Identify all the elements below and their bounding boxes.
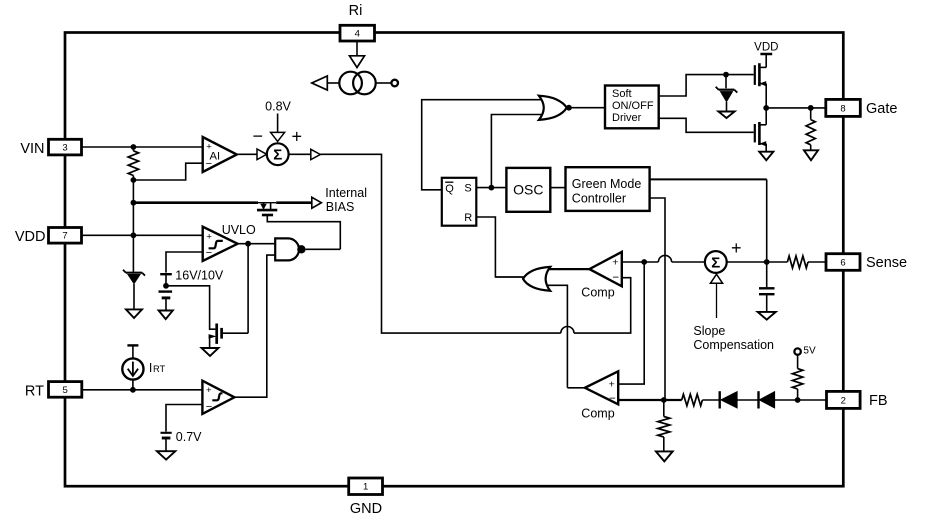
svg-text:2: 2 bbox=[841, 395, 846, 406]
block OSC bbox=[506, 168, 550, 212]
transistor Q1 pass PMOS on bias line bbox=[257, 203, 277, 215]
summing node S2 bbox=[705, 251, 727, 273]
svg-text:Q: Q bbox=[445, 183, 454, 195]
node Comp2 plus branch bbox=[641, 259, 647, 265]
ground below 0.7V bbox=[157, 451, 175, 459]
svg-text:6: 6 bbox=[840, 257, 845, 268]
comparator Comp1 bbox=[589, 252, 621, 286]
ground below zener D1 bbox=[126, 309, 142, 318]
0.8V reference label bbox=[265, 99, 291, 113]
ground below C-sense bbox=[758, 312, 776, 320]
zener D2 gate clamp bbox=[716, 75, 738, 112]
pin 6 Sense bbox=[826, 254, 907, 271]
svg-text:Gate: Gate bbox=[866, 101, 897, 117]
resistor R-5V bbox=[792, 355, 802, 400]
wire Qbar to OR1 top input bbox=[422, 100, 546, 190]
wire OSC to Green Mode Controller bbox=[550, 187, 565, 189]
pin 2 FB bbox=[827, 391, 888, 409]
svg-text:Sense: Sense bbox=[866, 255, 907, 271]
svg-text:Controller: Controller bbox=[572, 192, 626, 206]
svg-text:Green Mode: Green Mode bbox=[572, 177, 642, 191]
wire AI output bbox=[237, 153, 257, 155]
wire transformer left output bbox=[328, 82, 340, 84]
wire D3 to D4 bbox=[737, 399, 758, 401]
resistor R-gate bbox=[806, 108, 815, 150]
wire D4 to pin 2 bbox=[775, 399, 827, 401]
wire Comp2 minus input (FB line) bbox=[618, 399, 682, 401]
wire transformer right terminal bbox=[376, 82, 392, 84]
comparator UVLO bbox=[203, 227, 238, 261]
wire Comp2 output bbox=[567, 387, 585, 389]
svg-text:16V/10V: 16V/10V bbox=[175, 269, 224, 283]
svg-text:4: 4 bbox=[355, 29, 360, 40]
svg-text:Ri: Ri bbox=[349, 3, 363, 19]
wire GMC to FB node (with hop) bbox=[650, 198, 665, 400]
pin 5 RT bbox=[25, 382, 202, 400]
node 5V pull-up tap bbox=[795, 397, 801, 403]
capacitor C-sense bbox=[759, 262, 775, 312]
ground below R-fb2 bbox=[656, 451, 673, 461]
arrow left output bbox=[312, 76, 328, 90]
node UVLO output bbox=[245, 241, 251, 247]
IC boundary box bbox=[65, 33, 843, 487]
node RT junction bbox=[130, 387, 136, 393]
buffer arrow into summer bbox=[257, 149, 267, 160]
node Q4 gate bbox=[723, 72, 729, 78]
label VDD bbox=[754, 42, 778, 54]
ground below R-gate bbox=[804, 150, 818, 160]
wire UVLO output bbox=[238, 243, 276, 245]
svg-text:−: − bbox=[609, 393, 616, 405]
reference 16V/10V stack bbox=[159, 274, 173, 310]
svg-text:+: + bbox=[609, 378, 615, 390]
svg-text:Slope: Slope bbox=[693, 324, 725, 338]
current transformer T1 bbox=[339, 72, 375, 95]
wire Comp1 plus input to summer (hop over GMC line) bbox=[622, 255, 705, 262]
svg-text:S: S bbox=[464, 183, 471, 195]
svg-text:VIN: VIN bbox=[20, 141, 44, 157]
wire S node to OR1 bottom input bbox=[491, 115, 546, 188]
plus sign at summer bbox=[291, 127, 302, 147]
ground below 16V/10V bbox=[159, 311, 173, 320]
wire driver bottom output to Q5 gate bbox=[659, 118, 754, 132]
diode D3 bbox=[720, 391, 738, 408]
gate U2 NAND bbox=[275, 238, 305, 260]
svg-text:0.7V: 0.7V bbox=[176, 430, 202, 444]
svg-text:Σ: Σ bbox=[273, 147, 282, 164]
node S branch bbox=[489, 185, 495, 191]
wire Q4 source to gate node bbox=[765, 84, 767, 108]
svg-text:FB: FB bbox=[869, 393, 888, 409]
node OR1 output bbox=[566, 105, 572, 111]
svg-text:VDD: VDD bbox=[15, 229, 46, 245]
wire summer output bbox=[289, 153, 311, 155]
wire 0.8V down bbox=[277, 114, 279, 134]
node VIN junction bbox=[131, 144, 137, 150]
ground below zener D2 bbox=[718, 112, 734, 119]
svg-text:Comp: Comp bbox=[581, 285, 614, 299]
svg-text:RT: RT bbox=[25, 383, 44, 399]
zener D1 on VDD rail bbox=[123, 270, 145, 310]
block Green Mode Controller bbox=[566, 167, 650, 211]
terminal ring bbox=[391, 80, 398, 87]
label UVLO bbox=[222, 223, 256, 237]
wire S input from OSC bbox=[476, 187, 506, 189]
wire to AI inverting input bbox=[133, 163, 202, 180]
svg-text:+: + bbox=[612, 256, 618, 268]
svg-text:RT: RT bbox=[153, 364, 166, 374]
node gate output bbox=[763, 105, 769, 111]
wire R input from OR2 output bbox=[476, 217, 525, 277]
wire current-sense signal to Comp1 inverting input bbox=[320, 154, 630, 333]
summing node S1 bbox=[267, 143, 289, 165]
svg-text:I: I bbox=[149, 361, 152, 375]
label 0.7V bbox=[176, 430, 202, 444]
node VDD junction bbox=[131, 232, 137, 238]
svg-text:UVLO: UVLO bbox=[222, 223, 256, 237]
label Comp1 bbox=[581, 285, 614, 299]
svg-text:Driver: Driver bbox=[612, 112, 642, 124]
svg-text:0.8V: 0.8V bbox=[265, 99, 291, 113]
reference 0.7V battery bbox=[161, 433, 172, 451]
svg-text:+: + bbox=[291, 127, 302, 147]
wire Comp2 plus input from GMC node bbox=[618, 262, 644, 384]
resistor R-sense bbox=[787, 256, 808, 268]
svg-text:R: R bbox=[464, 212, 472, 224]
node bias tap bbox=[131, 200, 137, 206]
svg-text:5: 5 bbox=[63, 385, 68, 396]
node sense filter bbox=[764, 259, 770, 265]
svg-text:−: − bbox=[612, 272, 619, 284]
wire Comp1 output to OR2 bbox=[544, 268, 589, 270]
svg-text:Compensation: Compensation bbox=[693, 338, 774, 352]
svg-text:+: + bbox=[206, 385, 212, 396]
svg-text:Soft: Soft bbox=[612, 88, 632, 100]
arrowhead internal bias bbox=[312, 197, 322, 208]
wire slope compensation bbox=[716, 283, 718, 318]
svg-text:Σ: Σ bbox=[711, 254, 720, 271]
minus sign at summer bbox=[252, 126, 263, 146]
ground below Q5 bbox=[759, 152, 773, 161]
svg-text:1: 1 bbox=[363, 482, 368, 493]
arrowhead slope compensation bbox=[710, 274, 722, 283]
svg-text:7: 7 bbox=[62, 231, 67, 242]
wire UVLO inverting input to 16V/10V bbox=[166, 252, 203, 273]
pin 1 GND (bottom) bbox=[349, 478, 383, 517]
wire 16V/10V tap to Q3 gate bbox=[166, 286, 215, 329]
svg-text:GND: GND bbox=[350, 501, 382, 517]
wire IRT to RT line bbox=[132, 380, 134, 390]
svg-text:−: − bbox=[206, 401, 212, 413]
label Internal BIAS bbox=[325, 186, 367, 214]
VDD supply bar bbox=[760, 54, 772, 67]
node resistor bottom bbox=[131, 177, 137, 183]
svg-text:Comp: Comp bbox=[581, 406, 614, 420]
node FB divider bbox=[661, 397, 667, 403]
svg-text:−: − bbox=[252, 126, 263, 146]
arrowhead 0.8V bbox=[271, 132, 285, 141]
transistor Q4 high-side NMOS bbox=[755, 63, 766, 86]
svg-text:+: + bbox=[206, 232, 212, 243]
svg-text:3: 3 bbox=[62, 143, 67, 154]
pin 4 Ri (top) bbox=[340, 3, 375, 41]
terminal 5V bbox=[794, 345, 816, 356]
wire OR1 to soft driver bbox=[571, 107, 605, 109]
pin 3 VIN bbox=[20, 139, 202, 157]
diode D4 bbox=[759, 391, 775, 408]
block Soft ON/OFF Driver bbox=[605, 86, 659, 129]
wire R-fb1 to D3 bbox=[702, 399, 719, 401]
svg-text:Internal: Internal bbox=[325, 186, 367, 200]
wire GMC to sense node bbox=[650, 179, 767, 262]
wire pin4 to transformer bbox=[356, 41, 358, 56]
wire Q1 gate from NAND output bbox=[267, 216, 340, 249]
wire driver top output to Q4 gate bbox=[659, 75, 754, 96]
resistor R-fb1 bbox=[682, 394, 703, 406]
node 16V/10V tap bbox=[163, 283, 169, 289]
ground below Q3 bbox=[202, 348, 219, 356]
buffer arrow after summer bbox=[311, 149, 321, 159]
arrowhead into transformer bbox=[350, 56, 365, 68]
transistor Q3 NMOS bbox=[209, 324, 222, 349]
wire OR2 bottom input from Comp2 bbox=[544, 285, 567, 388]
svg-text:BIAS: BIAS bbox=[326, 200, 355, 214]
wire RT comparator inverting input to 0.7V bbox=[166, 405, 202, 432]
wire S2 to sense network bbox=[727, 261, 788, 263]
resistor R-VIN bbox=[128, 151, 138, 176]
wire RT comparator output to NAND input bbox=[234, 255, 275, 397]
gate U4 OR bbox=[539, 96, 567, 120]
wire gate node to pin 8 bbox=[766, 107, 826, 109]
current source IRT bbox=[122, 345, 143, 379]
svg-text:+: + bbox=[731, 238, 742, 258]
svg-text:ON/OFF: ON/OFF bbox=[612, 100, 654, 112]
wire VIN vertical rail bbox=[132, 147, 134, 272]
svg-text:8: 8 bbox=[840, 103, 845, 114]
wire internal bias (thick) bbox=[133, 201, 312, 204]
comparator Comp2 bbox=[585, 371, 618, 405]
label Slope Compensation bbox=[693, 324, 774, 352]
transistor Q5 low-side NMOS bbox=[755, 108, 766, 152]
label IRT bbox=[149, 361, 166, 375]
svg-text:OSC: OSC bbox=[513, 182, 543, 198]
latch U3 SR flip-flop bbox=[442, 178, 477, 226]
label 16V/10V bbox=[175, 269, 224, 283]
svg-text:VDD: VDD bbox=[754, 42, 778, 54]
wire NAND output bbox=[306, 248, 341, 250]
op-amp AI bbox=[203, 137, 237, 172]
node gate resistor tap bbox=[808, 105, 814, 111]
pin 7 VDD bbox=[15, 228, 203, 246]
pin 8 Gate bbox=[826, 99, 898, 117]
comparator U5 RT bbox=[202, 381, 234, 414]
wire UVLO node down to Q3 drain bbox=[222, 244, 248, 334]
wire R-sense to pin 6 bbox=[808, 261, 826, 263]
resistor R-fb2 to ground bbox=[658, 400, 670, 451]
plus sign at S2 bbox=[731, 238, 742, 258]
wire OR2 output to latch R bbox=[495, 276, 522, 278]
label Comp2 bbox=[581, 406, 614, 420]
svg-text:5V: 5V bbox=[803, 345, 816, 356]
gate U6 OR (mirrored) bbox=[523, 267, 550, 291]
svg-text:AI: AI bbox=[210, 151, 221, 163]
